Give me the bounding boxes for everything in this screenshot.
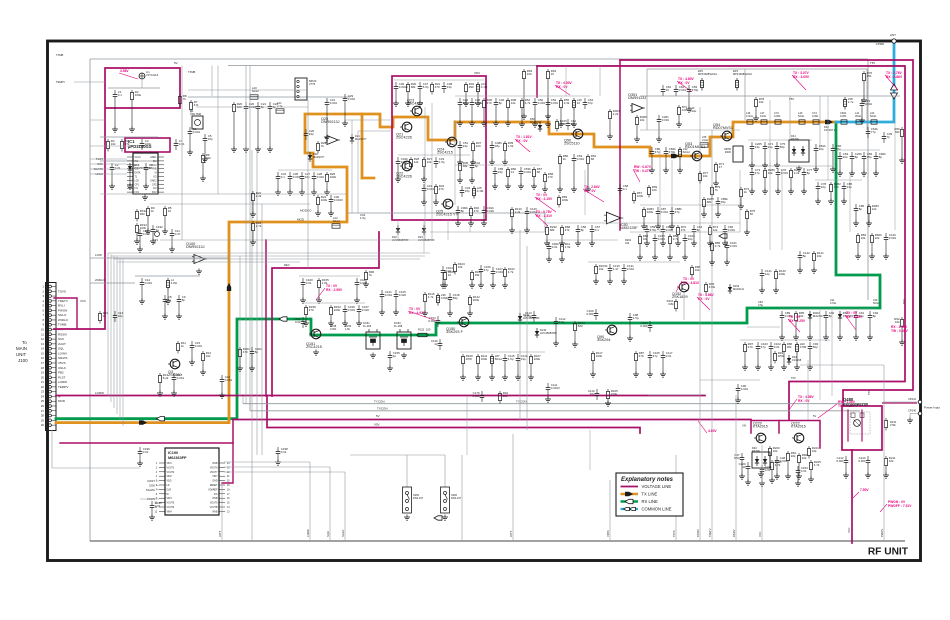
svg-text:VIN1: VIN1 — [167, 463, 173, 465]
svg-text:TDETV: TDETV — [58, 299, 68, 303]
svg-text:27: 27 — [41, 409, 45, 413]
svg-text:M62363FP: M62363FP — [168, 456, 187, 460]
svg-text:FL-368: FL-368 — [394, 324, 403, 328]
svg-text:LD: LD — [167, 485, 170, 487]
svg-text:18: 18 — [227, 489, 230, 491]
svg-text:220k: 220k — [534, 357, 541, 361]
svg-text:470: 470 — [834, 185, 839, 189]
svg-text:0.001: 0.001 — [538, 101, 546, 105]
svg-text:10k: 10k — [695, 268, 700, 272]
svg-text:1.5p: 1.5p — [439, 160, 445, 164]
svg-text:470: 470 — [309, 308, 314, 312]
svg-text:KTA2015: KTA2015 — [791, 425, 806, 429]
svg-text:0.001: 0.001 — [348, 308, 356, 312]
svg-text:68: 68 — [591, 157, 595, 161]
svg-text:7k: 7k — [715, 188, 719, 192]
svg-text:LORW: LORW — [306, 529, 310, 537]
svg-text:VINB: VINB — [212, 498, 218, 500]
svg-text:4.7k: 4.7k — [525, 101, 531, 105]
svg-text:2SC4215: 2SC4215 — [407, 102, 423, 106]
svg-text:10k: 10k — [503, 394, 508, 398]
svg-text:Explanatory notes: Explanatory notes — [621, 477, 674, 483]
svg-text:10k: 10k — [111, 142, 116, 146]
svg-text:10k: 10k — [759, 100, 764, 104]
svg-text:8p: 8p — [803, 254, 807, 258]
svg-text:10p: 10p — [463, 101, 468, 105]
svg-text:13p: 13p — [755, 145, 760, 149]
svg-text:27k: 27k — [681, 228, 686, 232]
svg-text:68: 68 — [537, 170, 541, 174]
svg-text:47k: 47k — [194, 103, 199, 107]
svg-text:2.2k: 2.2k — [515, 210, 521, 214]
svg-text:SGATA: SGATA — [146, 488, 155, 492]
svg-text:TXCON: TXCON — [377, 407, 388, 411]
svg-text:18p: 18p — [495, 144, 500, 148]
svg-text:3: 3 — [42, 294, 44, 298]
svg-text:TX LINE: TX LINE — [642, 492, 658, 497]
svg-text:14: 14 — [41, 347, 45, 351]
svg-text:0.82H: 0.82H — [441, 296, 449, 300]
svg-text:DAST: DAST — [148, 479, 156, 483]
svg-text:0.001: 0.001 — [428, 319, 436, 323]
svg-text:0.001: 0.001 — [858, 459, 866, 463]
svg-text:390: 390 — [469, 85, 474, 89]
svg-text:0.001: 0.001 — [781, 171, 789, 175]
svg-text:0.1: 0.1 — [281, 175, 285, 179]
svg-text:Q480: Q480 — [843, 397, 854, 402]
svg-text:0.01: 0.01 — [281, 450, 287, 454]
svg-text:0.001: 0.001 — [530, 210, 538, 214]
svg-text:0.001: 0.001 — [730, 244, 738, 248]
svg-text:MA2S077: MA2S077 — [313, 155, 325, 159]
svg-text:52nH: 52nH — [870, 114, 876, 118]
svg-text:3SK293 F: 3SK293 F — [446, 330, 464, 334]
svg-text:13: 13 — [227, 511, 230, 513]
svg-text:DS6-167: DS6-167 — [413, 496, 424, 500]
svg-text:IC190: IC190 — [168, 451, 178, 455]
svg-text:1k: 1k — [563, 157, 567, 161]
svg-text:10k: 10k — [599, 267, 604, 271]
svg-text:0.01: 0.01 — [143, 450, 149, 454]
svg-text:To: To — [22, 340, 27, 345]
svg-text:220p: 220p — [401, 160, 408, 164]
svg-text:200k: 200k — [473, 298, 480, 302]
svg-text:100k: 100k — [321, 198, 328, 202]
svg-text:74TCG16: 74TCG16 — [146, 73, 159, 77]
svg-text:470: 470 — [748, 345, 753, 349]
svg-text:T5V: T5V — [902, 299, 906, 304]
svg-text:22k: 22k — [791, 454, 796, 458]
svg-text:10k: 10k — [812, 449, 817, 453]
svg-text:VOUTB: VOUTB — [210, 507, 218, 509]
svg-text:TXMB: TXMB — [58, 323, 66, 327]
svg-text:47k: 47k — [125, 142, 130, 146]
svg-text:8p: 8p — [859, 207, 863, 211]
svg-text:1.5k: 1.5k — [565, 245, 571, 249]
svg-text:0.01: 0.01 — [115, 166, 121, 170]
svg-text:TDETV: TDETV — [708, 528, 712, 537]
svg-text:8p: 8p — [581, 228, 585, 232]
svg-text:22k: 22k — [861, 236, 866, 240]
svg-text:0.022: 0.022 — [362, 308, 370, 312]
svg-text:13: 13 — [41, 342, 45, 346]
svg-text:SDATA: SDATA — [58, 356, 68, 360]
svg-text:VDD: VDD — [167, 481, 172, 483]
svg-text:PWOFF : 7.31V: PWOFF : 7.31V — [888, 504, 912, 508]
svg-text:VCC: VCC — [847, 527, 851, 533]
svg-text:RX : 0V: RX : 0V — [798, 399, 810, 403]
svg-text:4: 4 — [42, 299, 44, 303]
svg-text:SGLO: SGLO — [341, 530, 345, 537]
svg-text:2.7k: 2.7k — [715, 244, 721, 248]
svg-text:47p: 47p — [653, 354, 658, 358]
svg-text:VCC1: VCC1 — [135, 157, 142, 159]
svg-text:22p: 22p — [688, 237, 693, 241]
svg-text:VOUT4: VOUT4 — [167, 507, 175, 509]
svg-text:DO: DO — [214, 494, 218, 496]
svg-text:21: 21 — [227, 476, 230, 478]
svg-text:72p: 72p — [588, 101, 593, 105]
svg-text:470: 470 — [435, 85, 440, 89]
svg-text:RX : 0V: RX : 0V — [516, 139, 528, 143]
svg-text:PLST: PLST — [58, 375, 66, 379]
svg-text:12k: 12k — [427, 160, 432, 164]
svg-text:2NDLO: 2NDLO — [95, 278, 106, 282]
svg-text:1.5p: 1.5p — [360, 216, 366, 220]
svg-text:100k: 100k — [596, 354, 603, 358]
svg-text:VIN2: VIN2 — [167, 476, 173, 478]
svg-text:62nH: 62nH — [683, 150, 690, 154]
svg-text:47p: 47p — [761, 345, 766, 349]
svg-text:0.001: 0.001 — [551, 101, 559, 105]
svg-text:1k: 1k — [151, 209, 155, 213]
svg-text:10k: 10k — [875, 236, 880, 240]
svg-text:1.5k: 1.5k — [508, 144, 514, 148]
svg-text:4.7k: 4.7k — [814, 463, 820, 467]
svg-text:VDAREF: VDAREF — [208, 488, 218, 491]
svg-text:62nH: 62nH — [333, 219, 340, 223]
svg-text:2: 2 — [156, 467, 158, 469]
svg-text:0.022: 0.022 — [487, 209, 495, 213]
svg-text:1k: 1k — [103, 314, 107, 318]
svg-text:0.1: 0.1 — [595, 228, 599, 232]
svg-text:8p: 8p — [879, 155, 883, 159]
svg-text:10k: 10k — [802, 456, 807, 460]
svg-text:0.047: 0.047 — [143, 232, 151, 236]
svg-text:16: 16 — [41, 356, 45, 360]
svg-text:RF UNIT: RF UNIT — [868, 547, 909, 558]
svg-text:0.001: 0.001 — [293, 175, 301, 179]
svg-text:3.58V: 3.58V — [120, 69, 129, 73]
svg-text:VOUT5: VOUT5 — [167, 503, 175, 505]
svg-text:0.01: 0.01 — [666, 354, 672, 358]
svg-text:34p: 34p — [309, 132, 314, 136]
svg-text:0.001: 0.001 — [889, 236, 897, 240]
svg-text:TEMPV: TEMPV — [56, 80, 65, 84]
svg-text:56: 56 — [750, 212, 754, 216]
svg-text:2775: 2775 — [309, 82, 316, 86]
svg-text:JPW: JPW — [560, 122, 566, 126]
svg-text:RESET: RESET — [210, 485, 218, 487]
svg-text:1SV307 F: 1SV307 F — [824, 128, 836, 132]
svg-text:470: 470 — [639, 354, 644, 358]
svg-text:13p: 13p — [521, 357, 526, 361]
svg-text:VDV: VDV — [474, 71, 480, 75]
svg-text:4: 4 — [156, 476, 158, 478]
svg-text:TW : 0.46V: TW : 0.46V — [891, 329, 908, 333]
svg-text:12k: 12k — [414, 160, 419, 164]
svg-text:22: 22 — [41, 385, 45, 389]
svg-text:39k: 39k — [475, 273, 480, 277]
svg-text:MODCO: MODCO — [300, 209, 312, 213]
svg-text:470: 470 — [487, 101, 492, 105]
svg-text:10k: 10k — [640, 118, 645, 122]
svg-text:0.001: 0.001 — [330, 327, 337, 331]
svg-text:ENB: ENB — [135, 165, 140, 167]
svg-text:RXLI: RXLI — [58, 304, 65, 308]
svg-text:3: 3 — [156, 472, 158, 474]
svg-text:GND: GND — [212, 481, 217, 483]
svg-text:4.8H: 4.8H — [171, 281, 177, 285]
svg-text:12k: 12k — [872, 207, 877, 211]
svg-text:0.01: 0.01 — [155, 504, 161, 508]
svg-text:VIN3: VIN3 — [167, 498, 173, 500]
svg-text:19: 19 — [227, 485, 230, 487]
svg-text:0.75p: 0.75p — [524, 314, 532, 318]
svg-text:5.5p: 5.5p — [423, 85, 429, 89]
svg-text:0.01: 0.01 — [446, 269, 452, 273]
svg-text:13p: 13p — [847, 185, 852, 189]
svg-text:MOD: MOD — [58, 399, 66, 403]
svg-text:8p: 8p — [855, 155, 859, 159]
svg-text:VIN4: VIN4 — [167, 511, 173, 513]
svg-text:12p: 12p — [765, 272, 770, 276]
svg-text:59p: 59p — [453, 296, 458, 300]
svg-text:10: 10 — [742, 465, 746, 469]
svg-text:4.7k: 4.7k — [428, 295, 434, 299]
svg-text:3SK294: 3SK294 — [597, 338, 611, 342]
svg-text:0.001: 0.001 — [658, 237, 666, 241]
svg-text:DATA: DATA — [135, 172, 141, 175]
svg-text:V5VS: V5VS — [58, 361, 66, 365]
svg-text:Power Input: Power Input — [924, 406, 940, 410]
svg-text:0.1M: 0.1M — [477, 189, 484, 193]
svg-text:10k: 10k — [817, 254, 822, 258]
svg-text:RX : 2.15V: RX : 2.15V — [536, 197, 553, 201]
svg-text:RD07MVS1: RD07MVS1 — [713, 126, 733, 130]
svg-text:1k: 1k — [181, 344, 185, 348]
svg-text:CP240: CP240 — [908, 409, 916, 413]
svg-text:2SC4226: 2SC4226 — [396, 136, 412, 140]
svg-text:820: 820 — [578, 324, 583, 328]
svg-text:SQL: SQL — [58, 347, 64, 351]
svg-text:0.001: 0.001 — [496, 270, 504, 274]
svg-text:10k: 10k — [643, 237, 648, 241]
svg-text:930: 930 — [206, 156, 211, 160]
svg-text:3.3k: 3.3k — [564, 101, 570, 105]
svg-text:0.001: 0.001 — [627, 267, 635, 271]
svg-text:0.001: 0.001 — [193, 130, 201, 134]
svg-text:10k: 10k — [206, 354, 211, 358]
svg-text:0.47: 0.47 — [175, 232, 181, 236]
svg-text:47nH: 47nH — [830, 301, 836, 305]
svg-text:4.7k: 4.7k — [775, 463, 781, 467]
svg-text:R670F: R670F — [791, 137, 799, 141]
svg-text:21: 21 — [41, 380, 45, 384]
svg-text:14: 14 — [227, 507, 230, 509]
svg-text:17: 17 — [227, 494, 230, 496]
svg-text:LCK: LCK — [135, 180, 140, 182]
svg-text:VCC2: VCC2 — [150, 165, 157, 167]
svg-text:VOUT8: VOUT8 — [210, 467, 218, 469]
svg-text:2.7k: 2.7k — [256, 224, 262, 228]
svg-text:0.01: 0.01 — [295, 320, 301, 324]
svg-text:68k: 68k — [550, 228, 555, 232]
svg-text:7p: 7p — [887, 135, 891, 139]
svg-text:2SC4226: 2SC4226 — [396, 175, 412, 179]
svg-text:10k: 10k — [889, 459, 894, 463]
svg-text:12k: 12k — [511, 101, 516, 105]
svg-text:0.001: 0.001 — [145, 281, 153, 285]
svg-text:19nH: 19nH — [760, 114, 766, 118]
svg-text:0.01: 0.01 — [801, 469, 807, 473]
svg-text:T5V: T5V — [791, 376, 796, 380]
svg-text:DI: DI — [167, 494, 170, 496]
svg-text:ATT5: ATT5 — [509, 530, 513, 537]
svg-text:62p: 62p — [590, 392, 595, 396]
svg-text:2SC4215: 2SC4215 — [306, 345, 322, 349]
svg-text:151: 151 — [867, 74, 872, 78]
svg-text:5V: 5V — [376, 414, 380, 418]
svg-text:GND2: GND2 — [150, 180, 157, 182]
svg-text:5: 5 — [42, 304, 44, 308]
svg-text:8p: 8p — [168, 298, 172, 302]
svg-text:VIV: VIV — [742, 424, 746, 428]
svg-text:2.7e: 2.7e — [277, 104, 283, 108]
svg-text:7k: 7k — [321, 144, 325, 148]
svg-text:RSQ035P03TR: RSQ035P03TR — [843, 403, 868, 407]
svg-text:470p: 470p — [650, 228, 657, 232]
svg-text:DS6-167: DS6-167 — [451, 496, 462, 500]
svg-text:TYCON: TYCON — [516, 400, 527, 404]
svg-text:18: 18 — [41, 366, 45, 370]
svg-text:34p: 34p — [305, 175, 310, 179]
svg-text:7: 7 — [42, 313, 44, 317]
svg-text:T5V: T5V — [870, 61, 875, 65]
svg-text:82k: 82k — [895, 130, 900, 134]
svg-text:47p: 47p — [755, 171, 760, 175]
svg-text:30: 30 — [41, 423, 45, 427]
svg-text:FL-363: FL-363 — [363, 324, 372, 328]
svg-text:6: 6 — [42, 308, 44, 312]
svg-text:LORW: LORW — [95, 391, 104, 395]
svg-text:4p: 4p — [393, 354, 397, 358]
svg-text:470: 470 — [439, 187, 444, 191]
svg-text:2NDLO: 2NDLO — [58, 318, 69, 322]
svg-text:VR5S: VR5S — [606, 530, 610, 537]
svg-text:22p: 22p — [836, 147, 841, 151]
svg-text:8p: 8p — [873, 314, 877, 318]
svg-text:3.8k: 3.8k — [668, 302, 674, 306]
svg-text:10: 10 — [577, 101, 581, 105]
svg-text:0.001: 0.001 — [195, 344, 203, 348]
svg-text:0.001: 0.001 — [679, 88, 687, 92]
svg-text:SQLI: SQLI — [326, 531, 330, 537]
svg-text:100k: 100k — [481, 357, 488, 361]
svg-text:J100: J100 — [18, 358, 28, 363]
svg-text:11: 11 — [41, 332, 44, 336]
svg-text:UNR9213J: UNR9213J — [321, 120, 340, 124]
svg-text:2SC4215: 2SC4215 — [437, 151, 453, 155]
svg-text:290R: 290R — [725, 150, 731, 154]
svg-text:7k: 7k — [183, 97, 187, 101]
svg-text:10: 10 — [666, 88, 670, 92]
svg-text:21nH: 21nH — [702, 138, 708, 142]
svg-text:LORW: LORW — [58, 380, 67, 384]
svg-text:R670F: R670F — [752, 449, 760, 453]
svg-text:25: 25 — [41, 399, 45, 403]
svg-text:FI2: FI2 — [153, 188, 157, 190]
svg-text:15: 15 — [41, 351, 45, 355]
svg-text:0.001: 0.001 — [812, 114, 819, 118]
svg-text:TYCON: TYCON — [374, 400, 385, 404]
svg-text:15p: 15p — [208, 137, 213, 141]
svg-text:470p: 470p — [692, 88, 699, 92]
svg-text:MA2S077: MA2S077 — [530, 120, 542, 124]
svg-text:1: 1 — [42, 285, 44, 289]
svg-text:52nH: 52nH — [798, 114, 804, 118]
svg-text:3.5p: 3.5p — [758, 303, 764, 307]
svg-text:2: 2 — [42, 289, 44, 293]
svg-text:1.47: 1.47 — [613, 267, 619, 271]
svg-text:V5V: V5V — [374, 423, 380, 427]
svg-text:TSVS: TSVS — [58, 289, 66, 293]
svg-text:2SC5110: 2SC5110 — [564, 142, 580, 146]
svg-text:0.001V: 0.001V — [334, 198, 343, 202]
svg-text:10: 10 — [551, 72, 555, 76]
svg-text:8p: 8p — [807, 171, 811, 175]
svg-text:990: 990 — [140, 212, 145, 216]
svg-text:0.01: 0.01 — [306, 281, 312, 285]
svg-text:0.001: 0.001 — [360, 281, 368, 285]
svg-text:100: 100 — [652, 188, 657, 192]
svg-text:HVC350BTRF: HVC350BTRF — [540, 331, 557, 335]
svg-text:14: 14 — [511, 170, 515, 174]
svg-text:MAIN: MAIN — [16, 346, 27, 351]
svg-text:22p: 22p — [821, 185, 826, 189]
svg-text:100k: 100k — [330, 175, 337, 179]
svg-text:0.001: 0.001 — [177, 376, 185, 380]
svg-text:0.1: 0.1 — [118, 93, 122, 97]
svg-text:100k: 100k — [135, 93, 142, 97]
svg-text:REV: REV — [284, 263, 290, 267]
svg-text:10k: 10k — [625, 241, 630, 245]
svg-text:10k: 10k — [703, 174, 708, 178]
svg-text:56nH: 56nH — [495, 357, 502, 361]
svg-text:ANT: ANT — [890, 33, 896, 37]
svg-text:RX LINE: RX LINE — [642, 499, 658, 504]
svg-text:0.5M: 0.5M — [800, 345, 807, 349]
svg-text:5.5p: 5.5p — [734, 456, 740, 460]
svg-text:8p: 8p — [461, 209, 465, 213]
svg-text:VOUT6: VOUT6 — [210, 503, 218, 505]
svg-text:1.5p: 1.5p — [508, 357, 514, 361]
svg-text:3.5p: 3.5p — [559, 320, 565, 324]
svg-text:MPZ1608S221A: MPZ1608S221A — [698, 72, 717, 76]
svg-text:VOUT2: VOUT2 — [167, 472, 175, 474]
svg-text:26: 26 — [41, 404, 45, 408]
svg-text:VOUT1: VOUT1 — [167, 467, 175, 469]
